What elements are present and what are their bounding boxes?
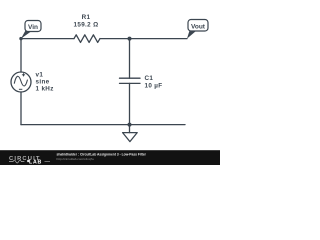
wire: R1 right to Vout terminal [100,38,187,40]
capacitor C1 bottom plate [120,82,141,84]
ground stem [129,125,131,133]
svg-text:shahidhaider : CircuitLab Assi: shahidhaider : CircuitLab Assignment 3 -… [57,153,147,157]
junction dot (bottom, ground) [128,123,132,127]
wire: C1 bottom plate to bottom rail [129,83,131,124]
v1 plus sign [22,73,25,76]
wire: v1 bottom to ground rail [20,92,22,125]
wire: node B down to C1 top plate [129,39,131,79]
svg-text:LAB: LAB [29,160,42,165]
v1 minus sign [19,88,22,90]
resistor R1 [74,35,100,43]
v1 sine symbol [14,76,27,86]
voltage source v1 circle [11,72,31,92]
wire: node A down to v1 top [20,39,22,72]
ground triangle [123,133,138,142]
node A dot at Vin [19,37,22,40]
svg-text:http://circuitlab.com/c4vq7e: http://circuitlab.com/c4vq7e [57,157,95,161]
svg-text:Vout: Vout [191,23,206,30]
svg-text:C1: C1 [145,75,154,82]
CircuitLab logo dot [27,160,29,162]
Vin flag box [25,21,41,32]
svg-text:159.2 Ω: 159.2 Ω [73,21,98,28]
svg-text:10 µF: 10 µF [145,82,163,89]
node B junction dot (top) [128,37,132,41]
svg-text:v1: v1 [36,71,44,78]
wire: node A to R1 left [21,38,74,40]
svg-text:sine: sine [36,78,50,85]
CircuitLab logo trailing line [45,161,51,163]
Vout flag box [188,20,208,32]
CircuitLab logo sine line [9,160,24,163]
Vin flag tail [21,30,31,39]
Vout flag tail [187,29,196,39]
capacitor C1 top plate [120,77,141,79]
footer bar [0,150,220,165]
svg-text:1 kHz: 1 kHz [36,86,54,93]
svg-text:R1: R1 [82,14,91,21]
svg-text:Vin: Vin [28,24,38,31]
wire: bottom rail [21,124,185,126]
